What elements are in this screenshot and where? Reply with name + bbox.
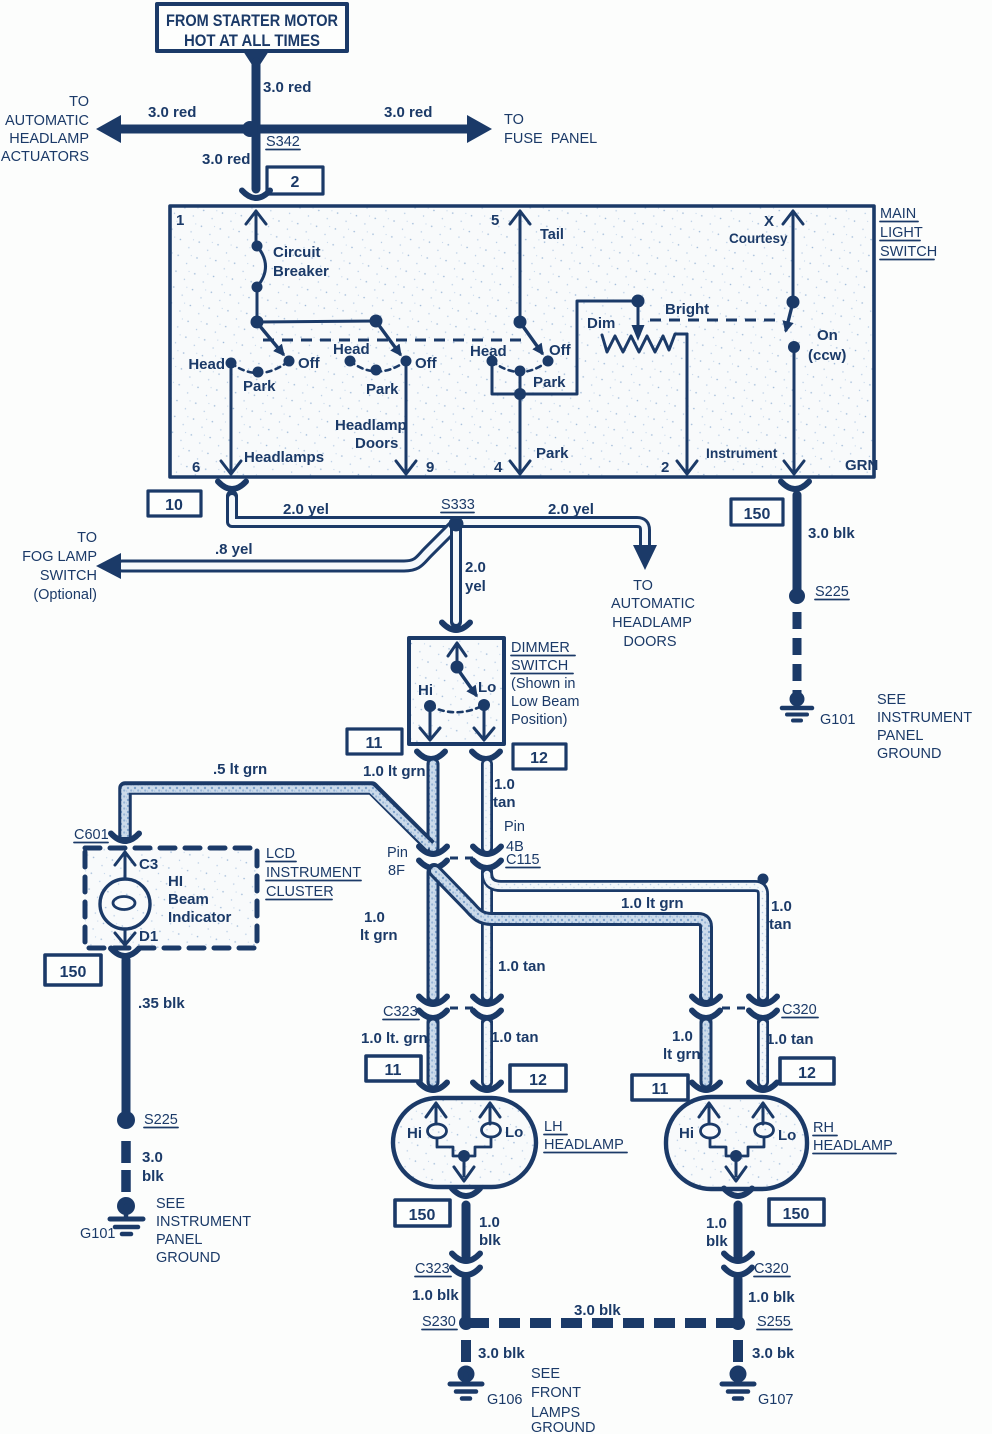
RH Lo filament	[755, 1123, 774, 1137]
connector C323	[419, 997, 447, 1005]
pin box 11 dimmer	[347, 729, 402, 754]
svg-text:8F: 8F	[388, 863, 405, 879]
svg-text:S225: S225	[815, 584, 849, 600]
svg-text:Breaker: Breaker	[273, 263, 329, 280]
svg-text:9: 9	[426, 459, 434, 476]
dashed wire to ground G101	[793, 612, 802, 694]
svg-text:Beam: Beam	[168, 891, 209, 908]
svg-text:(Shown in: (Shown in	[511, 676, 575, 692]
wire cb to pivot	[256, 287, 259, 318]
svg-text:blk: blk	[142, 1168, 164, 1185]
node dimmer pivot	[451, 661, 464, 674]
pin 2	[677, 461, 697, 474]
svg-text:TO: TO	[69, 94, 89, 110]
svg-text:1.0: 1.0	[672, 1028, 693, 1045]
pin box 11 LH	[366, 1056, 421, 1081]
svg-text:FROM STARTER MOTOR: FROM STARTER MOTOR	[166, 11, 338, 30]
dimmer contacts Hi Lo	[424, 700, 436, 712]
wire 3.0 red horizontal	[112, 125, 475, 134]
svg-text:HI: HI	[168, 873, 183, 890]
svg-text:SWITCH: SWITCH	[40, 568, 97, 584]
svg-text:HEADLAMP: HEADLAMP	[9, 131, 89, 147]
svg-text:LH: LH	[544, 1119, 563, 1135]
svg-text:(Optional): (Optional)	[33, 587, 97, 603]
svg-text:Hi: Hi	[679, 1125, 694, 1142]
wire .8 yel fog lamp branch	[122, 527, 453, 566]
svg-text:yel: yel	[465, 578, 486, 595]
svg-text:3.0: 3.0	[142, 1149, 163, 1166]
svg-text:Doors: Doors	[355, 435, 398, 452]
svg-text:Headlamp: Headlamp	[335, 417, 407, 434]
svg-text:3.0 blk: 3.0 blk	[574, 1302, 621, 1319]
svg-text:Park: Park	[366, 381, 399, 398]
pin 6	[221, 461, 241, 474]
pin X	[783, 211, 803, 224]
svg-text:11: 11	[366, 735, 383, 752]
wire 1.0 tan branch to RH headlamp	[487, 872, 763, 998]
svg-text:SEE: SEE	[156, 1196, 185, 1212]
pin 5	[510, 211, 530, 224]
cluster pin D1	[115, 929, 135, 945]
dimmer input pin	[448, 643, 466, 664]
wire 1.0 lt grn branch to RH headlamp	[434, 870, 706, 998]
label SEE INSTRUMENT PANEL GROUND left	[156, 1196, 251, 1266]
switch 1 blade	[259, 325, 283, 354]
on switch blade	[786, 306, 792, 330]
wire tan C320 to RH headlamp	[757, 1022, 769, 1082]
connectors above RH headlamp	[692, 1083, 720, 1091]
svg-text:Hi: Hi	[407, 1125, 422, 1142]
pin box 10	[148, 491, 201, 516]
svg-text:tan: tan	[493, 794, 516, 811]
svg-text:C320: C320	[782, 1002, 817, 1018]
connector below cluster	[111, 949, 139, 957]
svg-text:HEADLAMP: HEADLAMP	[813, 1138, 893, 1154]
svg-text:G101: G101	[80, 1226, 115, 1242]
svg-text:10: 10	[165, 497, 183, 514]
svg-text:1.0: 1.0	[494, 776, 515, 793]
pin box 150 LH	[395, 1200, 450, 1226]
wire 1.0 blk LH to S230	[462, 1279, 471, 1323]
LH pin 11 arrow	[426, 1103, 446, 1124]
svg-text:LIGHT: LIGHT	[880, 225, 923, 241]
connector below GRN pin	[781, 482, 809, 490]
svg-text:Off: Off	[549, 342, 572, 359]
wire pivot1 to pivot2	[257, 321, 376, 322]
connector above dimmer	[442, 623, 470, 631]
wire 1.0 blk LH	[462, 1205, 471, 1256]
svg-text:S230: S230	[422, 1314, 456, 1330]
ground G101 left	[80, 1197, 143, 1242]
svg-text:SWITCH: SWITCH	[880, 244, 937, 260]
dimmer blade	[459, 671, 476, 695]
node S225	[789, 588, 805, 604]
svg-text:ACTUATORS: ACTUATORS	[1, 149, 89, 165]
pin 9	[396, 461, 416, 474]
ground G101 right	[782, 692, 855, 729]
wire 1.0 blk RH to S255	[734, 1279, 743, 1323]
svg-text:1.0 tan: 1.0 tan	[766, 1031, 814, 1048]
svg-text:Instrument: Instrument	[706, 446, 778, 461]
pin box 150 GRN	[731, 499, 783, 525]
wire dash to G107	[733, 1340, 743, 1362]
ground G106	[450, 1366, 522, 1409]
wire lt grn C320 to RH headlamp	[700, 1022, 713, 1082]
svg-text:5: 5	[491, 212, 499, 229]
pin GRN	[784, 461, 804, 474]
svg-text:3.0 red: 3.0 red	[202, 151, 250, 168]
pin box 150 RH	[769, 1199, 824, 1225]
wire lt grn C323 to LH headlamp	[427, 1022, 440, 1082]
svg-text:GRN: GRN	[845, 457, 878, 474]
svg-text:11: 11	[652, 1081, 669, 1098]
svg-text:TO: TO	[633, 578, 653, 594]
svg-text:1.0 lt grn: 1.0 lt grn	[363, 763, 426, 780]
svg-text:S225: S225	[144, 1112, 178, 1128]
label TO FOG LAMP SWITCH	[22, 530, 97, 603]
wire 2.0 yel pin6 to S333	[232, 496, 456, 522]
svg-text:HEADLAMP: HEADLAMP	[612, 615, 692, 631]
svg-text:D1: D1	[139, 928, 158, 945]
pin 4	[510, 461, 530, 474]
svg-text:Park: Park	[243, 378, 276, 395]
svg-text:G106: G106	[487, 1392, 522, 1408]
wire tan C323 to LH headlamp	[481, 1022, 493, 1082]
arrow to fuse panel	[467, 115, 492, 143]
RH pin 12 arrow	[753, 1103, 773, 1124]
svg-text:Park: Park	[536, 445, 569, 462]
svg-text:Lo: Lo	[478, 679, 496, 696]
svg-text:12: 12	[529, 1072, 547, 1089]
svg-text:PANEL: PANEL	[877, 728, 923, 744]
wire pin5 to pivot3	[519, 213, 522, 318]
svg-text:FRONT: FRONT	[531, 1385, 581, 1401]
svg-text:.8 yel: .8 yel	[215, 541, 253, 558]
svg-text:3.0 blk: 3.0 blk	[808, 525, 855, 542]
LH pin 12 arrow	[480, 1103, 500, 1124]
label MAIN LIGHT SWITCH	[880, 206, 937, 260]
svg-text:Head: Head	[470, 343, 507, 360]
svg-text:tan: tan	[769, 916, 792, 933]
svg-text:TO: TO	[77, 530, 97, 546]
pin box 12 dimmer	[513, 744, 566, 769]
svg-text:S255: S255	[757, 1314, 791, 1330]
svg-text:lt grn: lt grn	[663, 1046, 701, 1063]
svg-text:FOG LAMP: FOG LAMP	[22, 549, 97, 565]
svg-text:Hi: Hi	[418, 682, 433, 699]
wire 1.0 lt grn C115 to C323	[427, 872, 440, 998]
svg-text:Dim: Dim	[587, 315, 615, 332]
connector C323 lower	[452, 1254, 480, 1262]
svg-text:1.0 tan: 1.0 tan	[498, 958, 546, 975]
svg-text:1.0: 1.0	[771, 898, 792, 915]
connectors above LH headlamp	[419, 1083, 447, 1091]
svg-text:On: On	[817, 327, 838, 344]
svg-text:blk: blk	[706, 1233, 728, 1250]
svg-text:6: 6	[192, 459, 200, 476]
svg-text:G107: G107	[758, 1392, 793, 1408]
op box: RH headlamp	[666, 1097, 807, 1189]
pin box 12 LH	[510, 1065, 566, 1091]
connector C320	[692, 997, 720, 1005]
LH internal wiring	[437, 1137, 491, 1156]
svg-text:Bright: Bright	[665, 301, 709, 318]
svg-text:Headlamps: Headlamps	[244, 449, 324, 466]
svg-text:DIMMER: DIMMER	[511, 640, 570, 656]
connector C320 lower	[724, 1254, 752, 1262]
svg-text:4: 4	[494, 459, 503, 476]
svg-text:SEE: SEE	[877, 692, 906, 708]
svg-text:Low Beam: Low Beam	[511, 694, 580, 710]
wire 1.0 tan C115 to C323	[481, 872, 493, 998]
svg-text:.35 blk: .35 blk	[138, 995, 185, 1012]
svg-text:2.0 yel: 2.0 yel	[283, 501, 329, 518]
wire head3/park3 bracket to pin 4	[492, 361, 520, 394]
svg-text:1: 1	[176, 212, 184, 229]
node bright junction	[632, 295, 645, 308]
svg-text:.5 lt grn: .5 lt grn	[213, 761, 267, 778]
pin 1	[246, 211, 266, 246]
svg-text:12: 12	[530, 750, 548, 767]
arrow to automatic headlamp actuators	[96, 115, 121, 143]
power source box FROM STARTER MOTOR	[157, 4, 347, 51]
svg-text:Off: Off	[415, 355, 438, 372]
svg-text:C323: C323	[415, 1261, 450, 1277]
pin box 11 RH	[632, 1075, 688, 1100]
rheostat resistive element	[602, 334, 687, 352]
lamp HI beam indicator	[100, 879, 150, 929]
pin box 12 RH	[780, 1058, 834, 1084]
op box: LH headlamp	[393, 1098, 536, 1187]
mechanical linkage dashed	[263, 339, 528, 342]
switch 1 contacts Head Park Off	[226, 358, 237, 369]
switch 2 contacts	[345, 356, 356, 367]
svg-text:Circuit: Circuit	[273, 244, 321, 261]
node S342	[242, 121, 258, 137]
wire park bracket to rheostat top	[520, 301, 638, 394]
svg-text:PANEL: PANEL	[156, 1232, 202, 1248]
switch 3 blade	[522, 325, 542, 353]
connector below pin 6	[218, 482, 246, 490]
wire pinX to pivot	[792, 213, 795, 298]
svg-text:blk: blk	[479, 1232, 501, 1249]
svg-text:150: 150	[744, 506, 771, 523]
node tan corner	[758, 874, 769, 885]
svg-text:1.0 blk: 1.0 blk	[412, 1287, 459, 1304]
node S255	[731, 1316, 745, 1330]
wire 2.0 yel S333 to dimmer	[450, 528, 462, 622]
svg-text:S333: S333	[441, 497, 475, 513]
RH pin 11 arrow	[699, 1103, 719, 1124]
svg-text:Off: Off	[298, 355, 321, 372]
RH Hi filament	[701, 1124, 720, 1138]
svg-text:S342: S342	[266, 134, 300, 150]
connector C115	[419, 847, 447, 855]
dashed wire to ground	[121, 1141, 131, 1192]
svg-text:GROUND: GROUND	[531, 1420, 595, 1434]
svg-text:11: 11	[385, 1062, 402, 1079]
svg-text:HOT AT ALL TIMES: HOT AT ALL TIMES	[184, 31, 320, 50]
svg-text:LCD: LCD	[266, 846, 295, 862]
svg-text:3.0 blk: 3.0 blk	[478, 1345, 525, 1362]
svg-text:Pin: Pin	[387, 845, 408, 861]
label TO AUTOMATIC HEADLAMP DOORS	[611, 578, 695, 650]
wire head1 to pin 6	[230, 363, 233, 473]
svg-text:MAIN: MAIN	[880, 206, 916, 222]
label SEE FRONT LAMPS GROUND	[531, 1366, 595, 1434]
svg-text:150: 150	[60, 964, 87, 981]
svg-text:C3: C3	[139, 856, 158, 873]
label TO FUSE PANEL	[504, 112, 597, 147]
svg-text:AUTOMATIC: AUTOMATIC	[611, 596, 695, 612]
svg-text:2.0: 2.0	[465, 559, 486, 576]
node on contact	[788, 341, 800, 353]
svg-text:Pin: Pin	[504, 819, 525, 835]
svg-text:INSTRUMENT: INSTRUMENT	[877, 710, 972, 726]
svg-text:1.0: 1.0	[479, 1214, 500, 1231]
svg-text:AUTOMATIC: AUTOMATIC	[5, 113, 89, 129]
wire 2.0 yel S333 to headlamp doors arrow	[456, 522, 645, 547]
svg-text:1.0 tan: 1.0 tan	[491, 1029, 539, 1046]
svg-text:2: 2	[661, 459, 669, 476]
wire .35 blk	[122, 960, 131, 1112]
connector C601	[111, 834, 139, 842]
node switch3 pivot	[514, 316, 527, 329]
wire 1.0 blk RH	[734, 1205, 743, 1256]
svg-text:3.0 bk: 3.0 bk	[752, 1345, 795, 1362]
wire rheostat to pin 2	[686, 334, 689, 473]
node S230	[459, 1316, 473, 1330]
svg-text:CLUSTER: CLUSTER	[266, 884, 334, 900]
svg-text:1.0: 1.0	[706, 1215, 727, 1232]
op box: LCD instrument cluster	[85, 848, 257, 948]
svg-text:2.0 yel: 2.0 yel	[548, 501, 594, 518]
label SEE INSTRUMENT PANEL GROUND	[877, 692, 972, 762]
wire 3.0 red vertical	[252, 62, 261, 189]
svg-text:X: X	[764, 213, 774, 230]
node S333	[449, 517, 464, 532]
pin box 150 cluster	[45, 955, 101, 985]
RH internal wiring	[710, 1137, 764, 1156]
svg-text:INSTRUMENT: INSTRUMENT	[266, 865, 361, 881]
node switch2 pivot	[370, 315, 383, 328]
node switch1 pivot	[251, 316, 264, 329]
svg-text:Head: Head	[188, 356, 225, 373]
svg-text:LAMPS: LAMPS	[531, 1405, 580, 1421]
svg-text:INSTRUMENT: INSTRUMENT	[156, 1214, 251, 1230]
svg-text:C601: C601	[74, 827, 109, 843]
circuit breaker CB	[252, 241, 330, 293]
svg-text:3.0 red: 3.0 red	[384, 104, 432, 121]
connector at main light switch pin 1	[242, 191, 270, 199]
connector below RH headlamp	[724, 1189, 752, 1197]
svg-text:(ccw): (ccw)	[808, 347, 846, 364]
wire 1.0 tan dimmer to C115	[481, 764, 493, 848]
svg-text:1.0 lt. grn: 1.0 lt. grn	[361, 1030, 428, 1047]
connectors below dimmer	[417, 752, 445, 760]
svg-text:C115: C115	[506, 852, 540, 868]
rheostat wiper arrow	[637, 301, 640, 325]
svg-text:12: 12	[798, 1065, 816, 1082]
svg-text:GROUND: GROUND	[156, 1250, 220, 1266]
svg-text:SEE: SEE	[531, 1366, 560, 1382]
arrow to fog lamp switch	[96, 553, 121, 579]
svg-text:1.0: 1.0	[364, 909, 385, 926]
svg-text:FUSE PANEL: FUSE PANEL	[504, 131, 597, 147]
switch 2 blade	[378, 324, 400, 354]
feed arrowhead	[243, 51, 269, 71]
op box: dimmer switch	[409, 638, 504, 744]
cluster pin C3	[115, 852, 135, 878]
LH Hi filament	[428, 1124, 447, 1138]
svg-text:Tail: Tail	[540, 227, 564, 243]
wire dash to G106	[461, 1340, 471, 1362]
svg-text:TO: TO	[504, 112, 524, 128]
svg-text:1.0 lt grn: 1.0 lt grn	[621, 895, 684, 912]
svg-text:3.0 red: 3.0 red	[148, 104, 196, 121]
svg-text:150: 150	[409, 1207, 436, 1224]
wire 1.0 lt grn dimmer to C115	[427, 764, 440, 848]
wire 3.0 blk dashed crossover	[468, 1318, 738, 1328]
dimmer output pins	[420, 706, 440, 740]
svg-text:Indicator: Indicator	[168, 909, 232, 926]
switch 3 contacts	[487, 356, 498, 367]
svg-text:Position): Position)	[511, 712, 567, 728]
svg-text:Park: Park	[533, 374, 566, 391]
svg-text:lt grn: lt grn	[360, 927, 398, 944]
svg-text:1.0 blk: 1.0 blk	[748, 1289, 795, 1306]
dimmer linkage dashed	[650, 319, 779, 322]
svg-text:Head: Head	[333, 341, 370, 358]
svg-text:DOORS: DOORS	[623, 634, 676, 650]
label TO AUTOMATIC HEADLAMP ACTUATORS	[1, 94, 89, 165]
svg-text:Lo: Lo	[505, 1124, 523, 1141]
svg-text:C320: C320	[754, 1261, 789, 1277]
LH Lo filament	[482, 1123, 501, 1137]
node S225 cluster	[117, 1111, 135, 1129]
svg-text:RH: RH	[813, 1120, 834, 1136]
wire on contact to GRN pin	[793, 347, 796, 473]
node on-switch pivot	[787, 296, 800, 309]
wire off2 to pin 9	[405, 361, 408, 473]
svg-text:GROUND: GROUND	[877, 746, 941, 762]
pin box 2	[267, 167, 323, 194]
label LCD INSTRUMENT CLUSTER	[266, 846, 361, 900]
svg-text:Lo: Lo	[778, 1127, 796, 1144]
svg-text:Courtesy: Courtesy	[729, 231, 788, 246]
svg-text:SWITCH: SWITCH	[511, 658, 568, 674]
op box: main light switch outline	[170, 206, 874, 477]
wire .5 lt grn C601 riser, horizontal run and diagonal to C115	[125, 788, 430, 846]
label DIMMER SWITCH	[511, 640, 580, 728]
svg-text:2: 2	[291, 174, 300, 191]
svg-text:3.0 red: 3.0 red	[263, 79, 311, 96]
wire 3.0 blk to S225	[793, 495, 802, 590]
svg-text:HEADLAMP: HEADLAMP	[544, 1137, 624, 1153]
ground G107	[722, 1366, 793, 1409]
svg-text:G101: G101	[820, 712, 855, 728]
connector below LH headlamp	[452, 1189, 480, 1197]
svg-text:C323: C323	[383, 1004, 418, 1020]
svg-text:150: 150	[783, 1206, 810, 1223]
